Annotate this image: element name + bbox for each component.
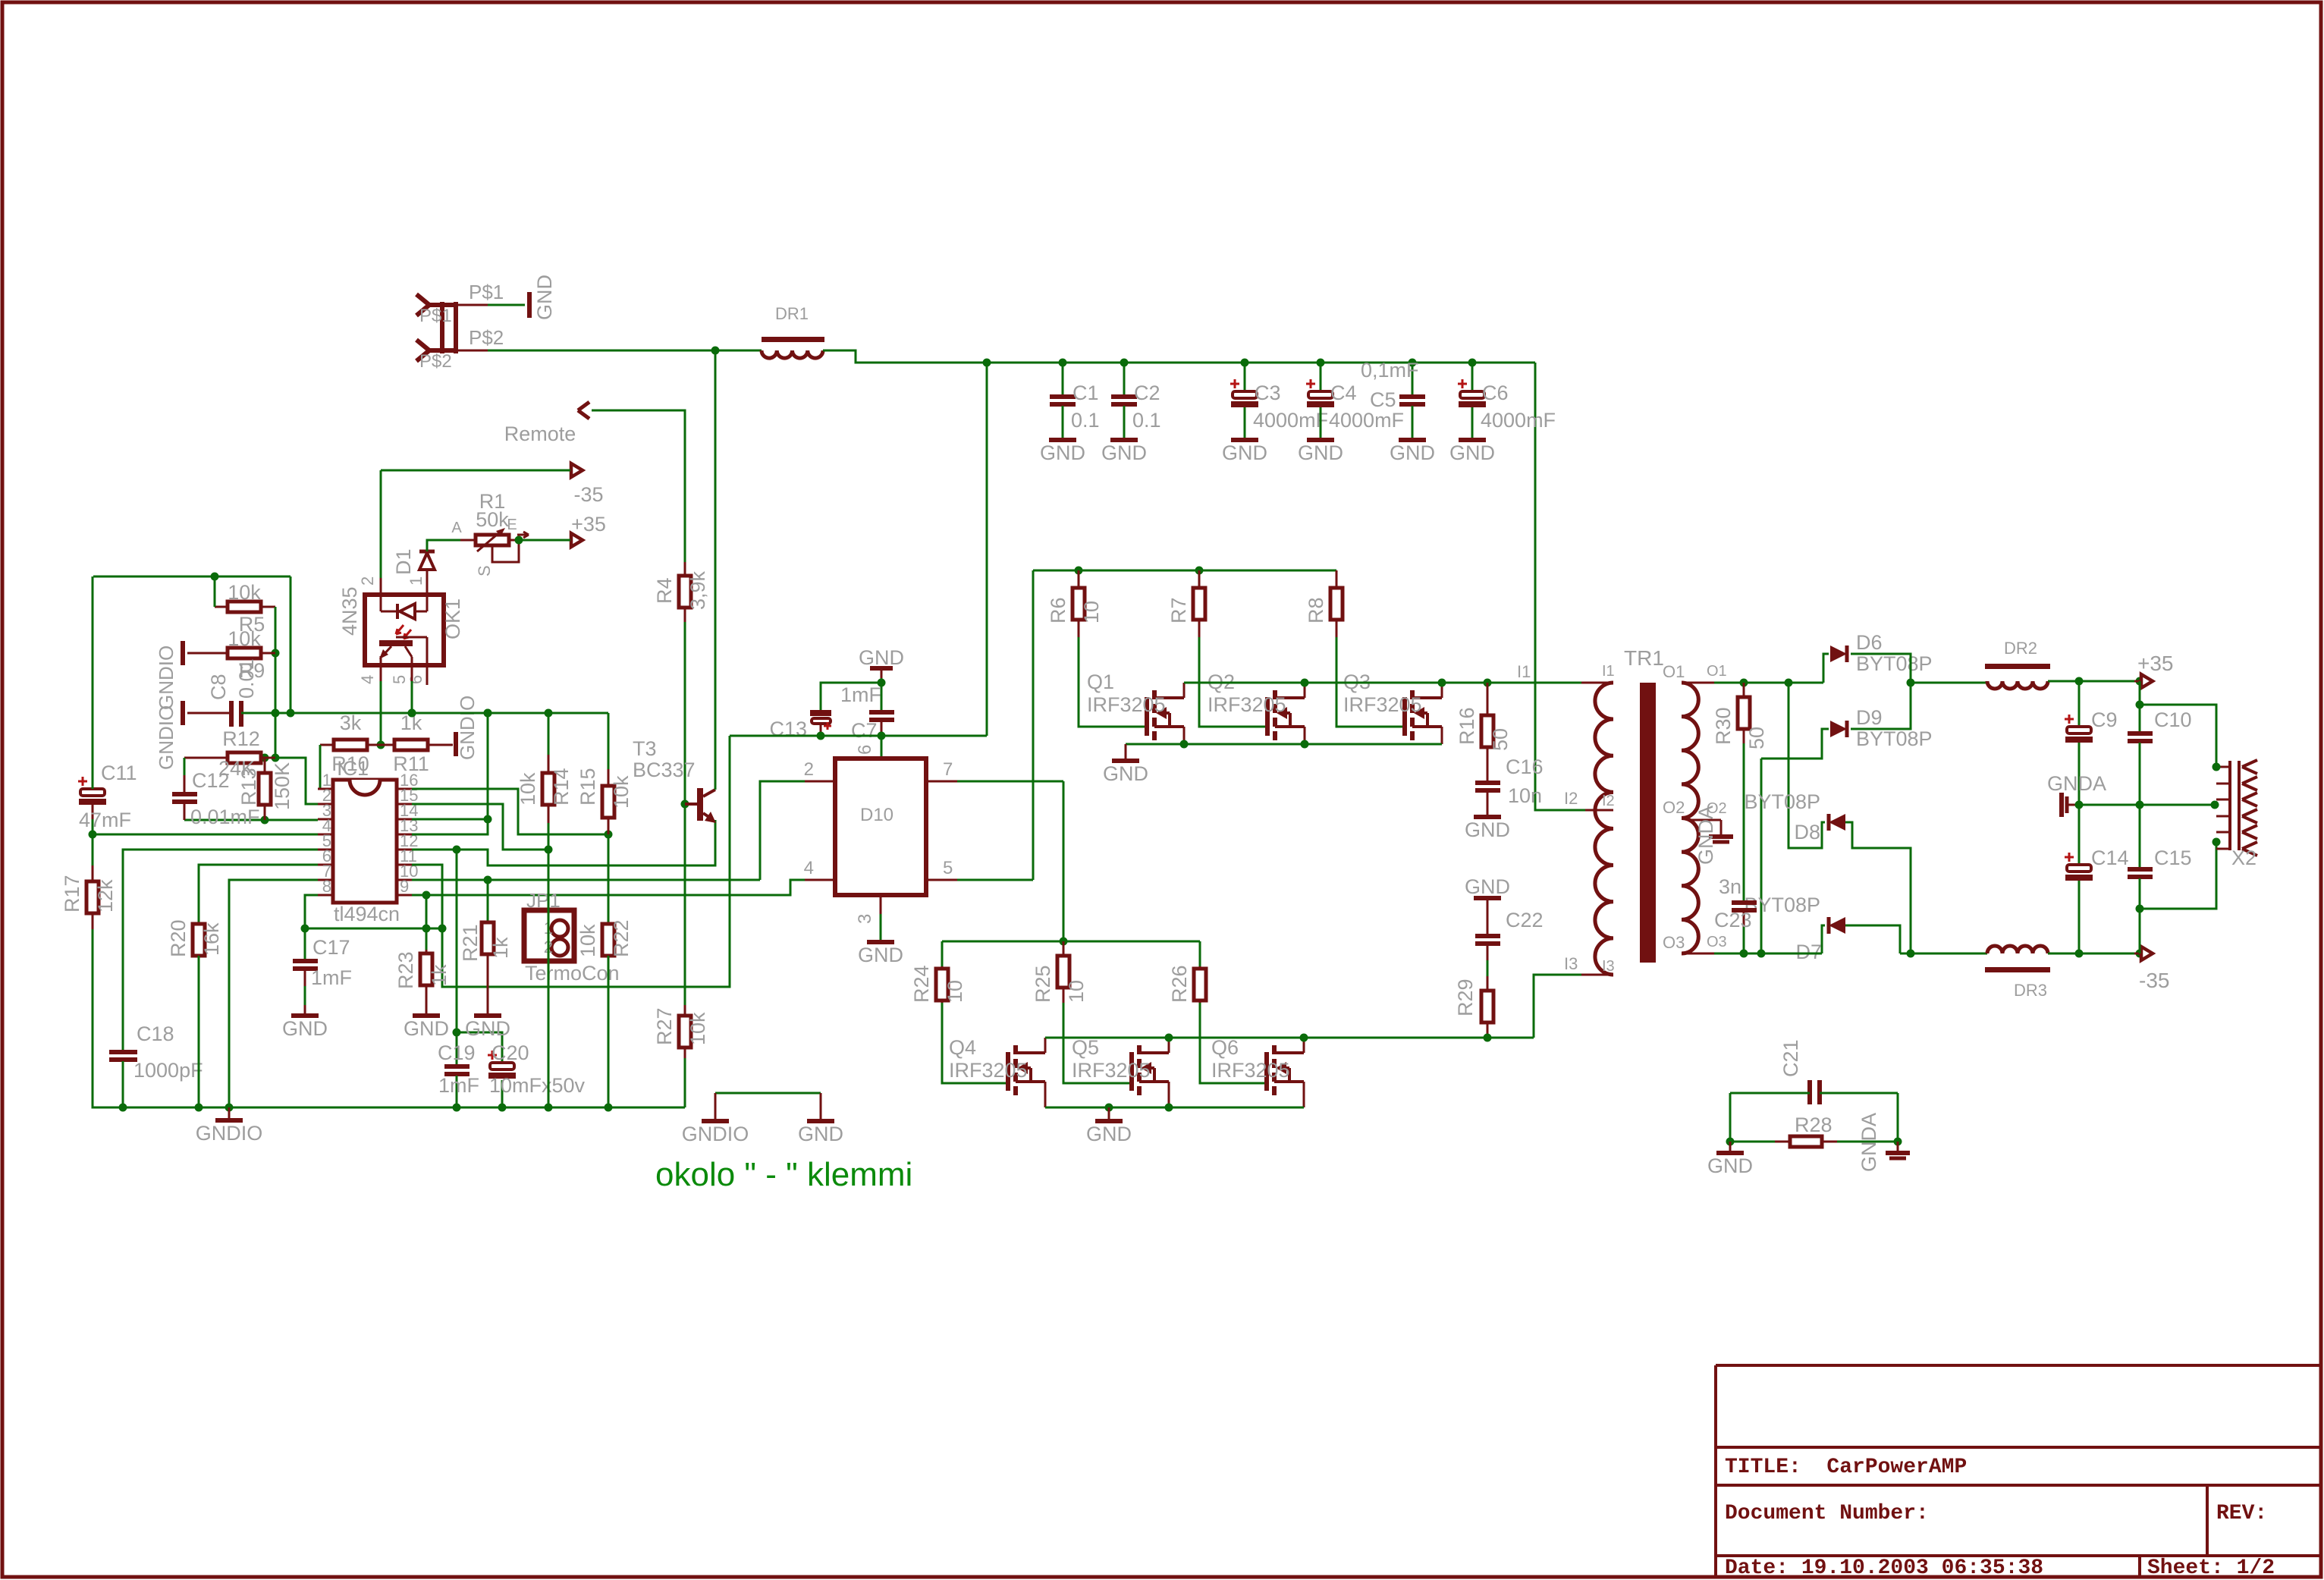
svg-text:1k: 1k xyxy=(428,964,451,986)
wire bus to TR1 I2 xyxy=(1535,363,1585,810)
wire bus drop to VCC rail xyxy=(986,363,988,736)
wire to C19 xyxy=(456,1032,458,1064)
wire C2 to GND xyxy=(1123,406,1126,438)
svg-text:GNDIO: GNDIO xyxy=(196,1122,263,1145)
wire D9 cathode to +rail xyxy=(1851,683,1911,729)
wire IC1 pin15 to R14 xyxy=(412,804,548,850)
svg-text:10n: 10n xyxy=(1508,784,1542,807)
svg-text:1k: 1k xyxy=(489,937,512,959)
svg-text:I2: I2 xyxy=(1564,789,1578,808)
junction xyxy=(484,709,492,718)
X2 pin 5 xyxy=(2216,831,2230,834)
capacitor C3 xyxy=(1233,391,1257,398)
junction left rail / pin4 xyxy=(89,831,97,839)
svg-text:6: 6 xyxy=(407,675,426,684)
wire -35 rail xyxy=(2048,953,2151,955)
capacitor C23 plates xyxy=(1732,900,1757,905)
junction Q6 drain xyxy=(1300,1034,1308,1042)
svg-text:C19: C19 xyxy=(438,1041,476,1064)
resistor R20 body xyxy=(198,923,200,925)
capacitor C13 1mF polarized xyxy=(810,710,831,716)
junction GND/R28 xyxy=(1726,1138,1735,1146)
wire R4 to T3 base xyxy=(684,622,686,804)
junction R12 right column xyxy=(272,754,280,762)
capacitor C10 plates xyxy=(2128,731,2153,736)
svg-text:3: 3 xyxy=(855,914,875,924)
svg-text:D9: D9 xyxy=(1856,706,1883,729)
wire D10 pin7 to gate rail xyxy=(1063,781,1065,941)
potentiometer R1 body xyxy=(476,535,509,545)
svg-text:C5: C5 xyxy=(1370,388,1396,411)
wire to C9 xyxy=(2078,681,2081,727)
svg-text:6: 6 xyxy=(855,745,875,755)
wire C4 to GND xyxy=(1320,407,1322,438)
svg-text:X2: X2 xyxy=(2231,847,2256,869)
svg-text:GND: GND xyxy=(798,1123,843,1145)
svg-text:C15: C15 xyxy=(2154,847,2192,869)
inductor DR3 coil xyxy=(1987,946,2048,953)
svg-text:8: 8 xyxy=(322,877,331,896)
svg-text:12k: 12k xyxy=(94,879,117,913)
svg-text:I1: I1 xyxy=(1517,662,1531,681)
TR1 secondary winding xyxy=(1682,683,1698,953)
wire R22 to rail xyxy=(608,956,610,1107)
resistor R22 body xyxy=(608,923,610,925)
svg-text:10: 10 xyxy=(944,980,966,1003)
svg-text:4: 4 xyxy=(358,675,377,684)
junction X2 mid xyxy=(2211,801,2219,809)
resistor R27 body xyxy=(684,1005,686,1016)
IC1 pin 7 stub xyxy=(318,879,333,881)
ground GNDA at TR1 O2 xyxy=(1709,834,1733,839)
junction -rail xyxy=(1907,950,1915,958)
ground GNDA right xyxy=(1897,1142,1899,1151)
wire C21 to GNDA node xyxy=(1897,1093,1899,1142)
junction xyxy=(408,709,416,718)
wire D10 pin2 jog xyxy=(760,781,805,880)
wire C17 to GND xyxy=(304,986,306,1005)
wire GNDIO rail xyxy=(93,1107,685,1109)
capacitor C9 xyxy=(2067,727,2091,733)
junction C14 bottom xyxy=(2075,950,2084,958)
wire R14 top xyxy=(548,713,550,759)
wire xyxy=(881,678,883,683)
svg-text:10k: 10k xyxy=(228,581,261,604)
junction C23 bottom xyxy=(1740,950,1748,958)
svg-text:10k: 10k xyxy=(610,775,633,809)
svg-text:IRF3205: IRF3205 xyxy=(1343,693,1422,716)
junction pin8/C17/R23 xyxy=(301,925,309,933)
ground GNDIO (rotated) right of R11 xyxy=(454,732,458,756)
IC1 pin 14 stub xyxy=(397,818,412,821)
svg-text:Q5: Q5 xyxy=(1072,1036,1099,1059)
svg-text:Document Number:: Document Number: xyxy=(1725,1502,1929,1525)
svg-text:BYT08P: BYT08P xyxy=(1856,652,1933,675)
svg-text:P$1: P$1 xyxy=(419,306,452,326)
junction feedback row xyxy=(484,709,492,718)
svg-text:R24: R24 xyxy=(910,965,933,1003)
ground below D10 xyxy=(867,940,894,944)
wire C1 to GND xyxy=(1062,406,1064,438)
wire GNDA to C14 xyxy=(2078,805,2081,865)
svg-text:C20: C20 xyxy=(491,1041,529,1064)
ground GND (rotated) at X1 xyxy=(527,292,532,318)
capacitor C22 plates xyxy=(1475,934,1500,938)
wire to C17 xyxy=(304,928,306,959)
svg-text:Sheet: 1/2: Sheet: 1/2 xyxy=(2147,1556,2275,1580)
resistor R7 body xyxy=(1198,570,1201,588)
junction rail/C19 xyxy=(453,1104,461,1112)
resistor R23 body xyxy=(426,950,428,953)
svg-text:R16: R16 xyxy=(1456,707,1478,745)
wire R21 top xyxy=(487,880,489,927)
svg-text:C1: C1 xyxy=(1072,382,1099,404)
svg-text:GNDIO: GNDIO xyxy=(155,705,177,770)
wire pin5 to gate rail xyxy=(1032,570,1035,880)
svg-text:GND: GND xyxy=(1040,441,1085,464)
svg-text:10mFx50v: 10mFx50v xyxy=(489,1074,586,1097)
jumper JP1 TermoCon xyxy=(524,910,574,961)
IC1 pin 1 stub xyxy=(318,788,333,790)
capacitor C1 xyxy=(1050,394,1076,399)
svg-text:0.1: 0.1 xyxy=(1132,409,1161,432)
junction rail/pin7 xyxy=(225,1104,234,1112)
svg-text:GND: GND xyxy=(282,1017,328,1040)
X2 pin 4 xyxy=(2216,815,2230,818)
resistor R25 body xyxy=(1063,941,1065,956)
inductor DR2 coil xyxy=(1987,681,2048,689)
optocoupler OK1 4N35 xyxy=(365,595,444,665)
junction R30 xyxy=(1740,679,1748,687)
svg-text:5: 5 xyxy=(943,858,953,878)
wire GNDA to C15 xyxy=(2139,805,2141,867)
D10 pin2 xyxy=(805,781,835,783)
ground GNDIO xyxy=(215,1118,243,1123)
OK1 internal LED xyxy=(380,595,382,611)
svg-text:R8: R8 xyxy=(1305,597,1327,624)
wire left rail to GNDIO rail xyxy=(93,929,123,1107)
svg-text:10: 10 xyxy=(1080,601,1103,624)
svg-text:GNDIO: GNDIO xyxy=(155,646,177,710)
wire O1 to D6 anode xyxy=(1823,654,1829,683)
svg-text:GND: GND xyxy=(1465,875,1510,898)
svg-text:C7: C7 xyxy=(851,719,878,742)
svg-text:1: 1 xyxy=(407,576,426,586)
svg-text:10: 10 xyxy=(1065,980,1088,1003)
svg-text:1mF: 1mF xyxy=(438,1074,479,1097)
svg-text:O2: O2 xyxy=(1663,798,1685,817)
node bus/C6 xyxy=(1468,359,1477,367)
wire bus to C6 xyxy=(1471,363,1474,391)
resistor R6 body xyxy=(1078,570,1080,588)
svg-text:GNDIO: GNDIO xyxy=(456,696,479,760)
wire GNDIO/feedback row xyxy=(241,712,608,715)
wire drain rail to TR1 I1 xyxy=(1184,682,1581,684)
svg-text:GND: GND xyxy=(1086,1123,1132,1145)
ground GND Q4-Q6 xyxy=(1095,1119,1123,1123)
svg-text:GNDIO: GNDIO xyxy=(682,1123,749,1145)
resistor R13 body xyxy=(264,758,266,773)
wire Q4-Q6 source rail xyxy=(1045,1107,1304,1109)
wire IC1 pin14 xyxy=(412,818,488,821)
IC1 pin 4 stub xyxy=(318,834,333,836)
transistor Q6 IRF3205 xyxy=(1264,1052,1269,1091)
wire OK1 pin2 up xyxy=(380,470,382,578)
resistor R9 body xyxy=(228,648,261,658)
wire O1 to D8 cathode xyxy=(1789,683,1825,848)
svg-text:C22: C22 xyxy=(1506,909,1544,931)
junction R14 top xyxy=(545,709,553,718)
svg-text:IC1: IC1 xyxy=(337,757,369,780)
svg-text:D1: D1 xyxy=(392,548,415,575)
junction C10 branch xyxy=(2136,677,2144,686)
wire Remote to R4 xyxy=(592,410,685,562)
wire R10 to IC1 pin1 xyxy=(318,745,320,789)
wire to -rail xyxy=(2139,909,2141,953)
junction pin11 column xyxy=(438,925,447,933)
svg-text:7: 7 xyxy=(943,759,953,780)
svg-text:A: A xyxy=(451,520,462,536)
svg-text:50: 50 xyxy=(1489,728,1512,751)
IC1 pin 9 stub xyxy=(397,894,412,897)
wire to R26 xyxy=(1199,941,1201,971)
svg-text:+35: +35 xyxy=(571,513,606,536)
svg-text:2: 2 xyxy=(804,759,814,780)
svg-text:IRF3205: IRF3205 xyxy=(1087,693,1166,716)
svg-text:4000mF: 4000mF xyxy=(1329,409,1404,432)
junction T3 base xyxy=(681,800,689,809)
OK1 internal phototransistor xyxy=(379,640,413,646)
svg-text:TermoCon: TermoCon xyxy=(525,962,620,985)
wire C5 to GND xyxy=(1412,406,1414,438)
wire IC1 pin16 to R15 xyxy=(412,789,608,834)
wire R27 to GNDIO rail xyxy=(684,1058,686,1107)
arrow xyxy=(2141,674,2153,688)
IC1 pin 5 stub xyxy=(318,849,333,851)
junction R13 bottom xyxy=(261,816,269,825)
wire D10 pin7 xyxy=(957,781,1063,783)
svg-text:R14: R14 xyxy=(550,768,573,806)
wire to R24 xyxy=(941,941,944,971)
svg-text:1000pF: 1000pF xyxy=(133,1059,203,1082)
svg-text:R22: R22 xyxy=(610,919,633,957)
svg-text:IRF3205: IRF3205 xyxy=(1208,693,1286,716)
wire R15 to R22 xyxy=(608,834,610,924)
junction R25/pin7 xyxy=(1060,938,1068,946)
wire R6 to Q1 gate xyxy=(1079,637,1147,727)
inductor DR2 xyxy=(1985,664,2050,669)
junction rail/C20 xyxy=(498,1104,507,1112)
svg-text:GND: GND xyxy=(1222,441,1267,464)
IC1 pin 8 stub xyxy=(318,894,333,897)
ground GND left xyxy=(1729,1142,1732,1151)
ground below C4 xyxy=(1307,438,1334,442)
wire left rail upper xyxy=(92,576,94,789)
wire bus to C3 xyxy=(1244,363,1246,391)
svg-text:R23: R23 xyxy=(394,951,417,989)
wire IC1 pin13 up to net xyxy=(412,713,488,834)
svg-text:GNDA: GNDA xyxy=(2047,772,2106,795)
resistor R14 body xyxy=(548,755,550,773)
junction Q2 drain xyxy=(1301,679,1309,687)
wire to X2 pin1 xyxy=(2140,705,2216,767)
ground below C1 xyxy=(1049,438,1076,442)
wire P$2 to DR1 xyxy=(488,350,762,352)
junction rail/R20 xyxy=(195,1104,203,1112)
wire D10 pin5 xyxy=(957,879,1033,881)
TR1 primary winding xyxy=(1595,683,1613,975)
svg-text:C11: C11 xyxy=(101,762,137,784)
svg-text:9: 9 xyxy=(400,877,409,896)
junction rail/R22 xyxy=(605,1104,613,1112)
svg-text:R26: R26 xyxy=(1168,965,1191,1003)
junction C10/C15 xyxy=(2136,801,2144,809)
svg-text:16k: 16k xyxy=(200,922,223,956)
junction R16 xyxy=(1484,679,1492,687)
diode D1 xyxy=(419,553,435,570)
junction Q5 drain xyxy=(1165,1034,1173,1042)
svg-text:4000mF: 4000mF xyxy=(1253,409,1328,432)
junction C9 xyxy=(2075,677,2084,686)
svg-text:Q1: Q1 xyxy=(1087,671,1114,693)
IC1 pin 6 stub xyxy=(318,864,333,866)
junction pin12 / C19 branch xyxy=(453,846,461,854)
svg-text:GND: GND xyxy=(465,1017,510,1040)
junction C7/D10 pin6 xyxy=(878,732,886,740)
svg-text:10k: 10k xyxy=(576,924,599,957)
diode D6 BYT08P xyxy=(1830,646,1847,662)
wire bus to C2 xyxy=(1123,363,1126,394)
resistor R8 body xyxy=(1336,570,1338,588)
arrow xyxy=(571,533,583,547)
svg-text:I3: I3 xyxy=(1564,954,1578,973)
svg-text:C10: C10 xyxy=(2154,708,2192,731)
svg-text:GND: GND xyxy=(1707,1154,1753,1177)
wire IC1 pin8 down xyxy=(305,895,318,928)
junction R12/R13 xyxy=(261,754,269,762)
svg-text:3k: 3k xyxy=(340,711,362,734)
svg-text:tl494cn: tl494cn xyxy=(334,903,400,925)
IC1 pin 3 stub xyxy=(318,818,333,821)
capacitor C15 plates xyxy=(2128,867,2153,872)
wire +rail to DR2 xyxy=(1911,682,1987,684)
IC1 pin 16 stub xyxy=(397,788,412,790)
svg-text:GNDA: GNDA xyxy=(1694,806,1717,865)
wire to C10 xyxy=(2139,705,2141,731)
ground below C6 xyxy=(1459,438,1486,442)
svg-text:C8: C8 xyxy=(207,674,230,700)
wire to R5 xyxy=(214,576,216,607)
capacitor C18 plates xyxy=(109,1050,137,1054)
wire IC1 pin10 row xyxy=(412,879,760,881)
IC1 pin 12 stub xyxy=(397,849,412,851)
wire net row y760 xyxy=(93,576,290,578)
junction D9 anode xyxy=(1757,950,1766,958)
junction C15 bottom xyxy=(2136,950,2144,958)
wire D10 pin6 xyxy=(881,736,883,759)
wire R7 to Q2 gate xyxy=(1199,637,1267,727)
svg-text:50k: 50k xyxy=(476,508,509,531)
wire R23 top xyxy=(426,895,428,957)
wire +35 rail xyxy=(2048,680,2151,683)
wire gate drive rail top xyxy=(1033,570,1336,572)
OK1 pin stubs xyxy=(380,665,382,681)
svg-text:47mF: 47mF xyxy=(79,809,131,831)
wire OK1 pin5 down xyxy=(411,681,413,713)
junction pin5 / net row xyxy=(408,709,416,718)
transistor Q2 IRF3205 xyxy=(1265,697,1270,736)
svg-text:GND: GND xyxy=(1101,441,1147,464)
D10 pin7 xyxy=(926,781,957,783)
junction R6 xyxy=(1075,567,1083,575)
node bus/C3 xyxy=(1241,359,1249,367)
svg-text:C16: C16 xyxy=(1506,755,1544,778)
svg-text:R12: R12 xyxy=(222,727,260,750)
svg-text:R17: R17 xyxy=(61,875,83,913)
wire IC1 pin2 to R12/R13 xyxy=(261,758,318,804)
resistor R12 body xyxy=(228,752,261,763)
capacitor C7 plates xyxy=(869,710,894,715)
svg-text:R30: R30 xyxy=(1712,707,1735,745)
wire C19 bottom xyxy=(456,1076,458,1107)
svg-text:BYT08P: BYT08P xyxy=(1856,727,1933,750)
wire C15 down xyxy=(2139,878,2141,909)
X2 pin 2 xyxy=(2216,783,2230,785)
svg-text:Q4: Q4 xyxy=(949,1036,976,1059)
TR1 O2 pin xyxy=(1688,819,1721,821)
arrow xyxy=(2141,947,2153,960)
svg-text:O1: O1 xyxy=(1663,662,1685,681)
junction C10/X2 branch xyxy=(2136,701,2144,709)
svg-text:I3: I3 xyxy=(1602,958,1615,975)
wire R30 to C23 xyxy=(1743,743,1745,900)
svg-text:-35: -35 xyxy=(573,483,603,506)
wire D8 anode to -rail xyxy=(1845,822,1911,953)
svg-text:O3: O3 xyxy=(1707,934,1727,950)
capacitor C12 plates xyxy=(172,792,197,796)
junction R7 xyxy=(1195,567,1204,575)
svg-text:150K: 150K xyxy=(271,762,294,810)
svg-text:+35: +35 xyxy=(2137,652,2174,675)
svg-text:JP1: JP1 xyxy=(526,889,561,912)
capacitor C5 xyxy=(1399,394,1425,399)
wire O3 to D7 cathode xyxy=(1822,925,1825,953)
svg-text:50: 50 xyxy=(1745,727,1768,749)
svg-text:C3: C3 xyxy=(1255,382,1281,404)
TR1 O1 pin xyxy=(1682,682,1714,684)
svg-text:TR1: TR1 xyxy=(1624,646,1664,670)
wire C21 right xyxy=(1820,1092,1898,1095)
resistor R4 body xyxy=(684,562,686,576)
resistor R15 body xyxy=(608,769,610,786)
svg-text:GND: GND xyxy=(1103,762,1148,785)
wire -35 feedback xyxy=(381,470,570,472)
wire pin12 branch down xyxy=(456,850,458,1032)
wire net drop to GNDIO row xyxy=(290,576,292,713)
diode D7 BYT08P xyxy=(1829,917,1845,934)
inductor DR1 coil xyxy=(762,350,823,358)
svg-text:R27: R27 xyxy=(653,1007,676,1045)
wire to C7 top xyxy=(881,683,883,710)
junction GND/C7/C13 xyxy=(878,679,886,687)
arrow xyxy=(578,402,589,419)
node bus/C5 xyxy=(1409,359,1417,367)
wire bus to C4 xyxy=(1320,363,1322,391)
svg-text:D10: D10 xyxy=(860,805,893,825)
svg-text:E: E xyxy=(507,517,517,533)
junction P$2 / collector drop xyxy=(711,347,720,355)
X2 pin 3 xyxy=(2216,799,2230,801)
